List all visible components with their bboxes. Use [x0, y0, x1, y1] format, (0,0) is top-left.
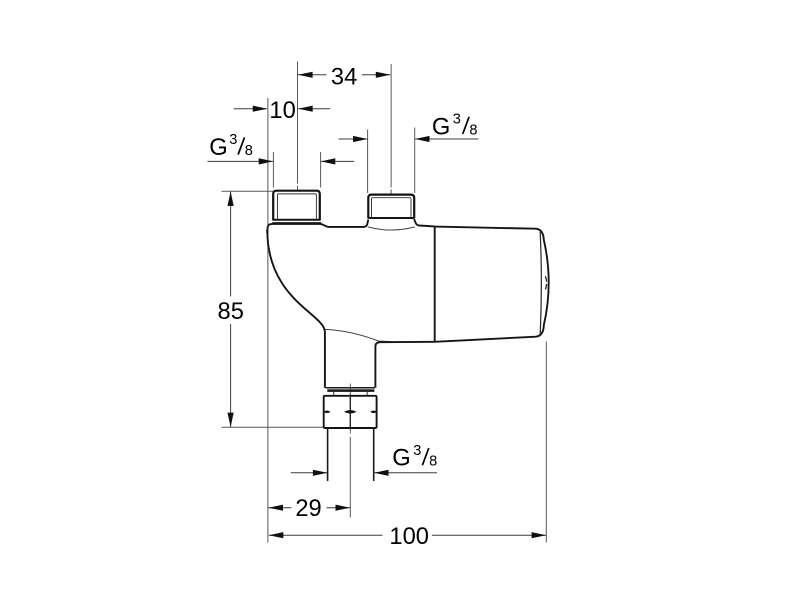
bottom stub pipe right edge	[373, 429, 375, 481]
extension line: right thread right edge	[414, 128, 416, 194]
arrow 34 right	[376, 72, 391, 78]
dim line 34	[298, 74, 327, 76]
dim line 85	[230, 192, 232, 297]
right thread connector outline	[368, 195, 414, 219]
arrow 29 right	[336, 505, 351, 511]
washer bar	[327, 389, 374, 392]
label G3/8 bottom	[392, 443, 437, 472]
cartridge housing outline	[435, 227, 549, 342]
arrow 85 bottom	[228, 413, 234, 428]
extension line: left thread left edge	[272, 152, 274, 188]
arrow 10 left	[253, 106, 268, 112]
cap seam line	[540, 232, 541, 335]
left thread connector outline	[273, 191, 320, 221]
right thread inner chamfer lines	[372, 198, 412, 217]
svg-text:85: 85	[218, 299, 244, 325]
leader G3/8 top right	[415, 138, 478, 140]
extension line: 85 bottom	[222, 426, 324, 428]
svg-text:G: G	[392, 446, 410, 472]
centerline: right thread	[390, 64, 392, 188]
svg-text:100: 100	[389, 524, 429, 550]
left thread inner chamfer lines	[278, 194, 317, 219]
label G3/8 top right	[432, 112, 478, 141]
left thread base collar line	[272, 222, 321, 224]
washer side edges	[334, 392, 368, 396]
svg-text:10: 10	[269, 98, 295, 124]
svg-text:G: G	[209, 135, 227, 161]
svg-text:G: G	[432, 114, 450, 140]
body left big arc into outlet pipe left edge	[267, 230, 325, 388]
right thread bottom edge	[368, 217, 414, 219]
hex nut chamfer lens left	[324, 411, 331, 414]
arrow G3/8 TL partner	[321, 158, 336, 164]
extension line: right thread left edge	[367, 130, 369, 194]
dim line 10 tails	[234, 108, 267, 110]
centerline: left thread	[297, 62, 299, 184]
cap centre tick marks	[545, 276, 546, 289]
arrow G3/8 TL leader	[259, 158, 274, 164]
svg-text:29: 29	[295, 496, 321, 522]
extension line: cylinder right end	[545, 342, 547, 543]
divider line body / cartridge housing	[434, 227, 436, 342]
left thread bottom edge	[273, 219, 320, 221]
svg-text:8: 8	[429, 454, 437, 470]
arrow 29 left	[269, 505, 284, 511]
extension line: left thread right edge	[320, 152, 322, 188]
hex nut chamfer lens right	[370, 411, 377, 414]
svg-text:3: 3	[413, 443, 421, 459]
arrow 100 right	[532, 532, 547, 538]
leader G3/8 top left	[207, 160, 272, 162]
arrow G3/8 bottom leader	[374, 470, 389, 476]
arrow G3/8 bottom partner	[313, 470, 328, 476]
arrow G3/8 TR leader	[415, 136, 430, 142]
svg-text:8: 8	[469, 122, 477, 138]
svg-text:3: 3	[453, 112, 461, 128]
svg-text:34: 34	[331, 64, 357, 90]
saddle curve under right thread	[368, 227, 415, 230]
dim line 29	[268, 507, 291, 509]
extension line: body left edge (long)	[267, 98, 269, 543]
body top edge right of right thread	[414, 219, 435, 226]
saddle curve right of outlet pipe	[325, 329, 392, 341]
arrow 34 left	[298, 72, 313, 78]
centerline: bottom outlet	[349, 384, 351, 434]
bottom stub pipe left edge	[327, 429, 329, 481]
leader G3/8 bottom	[374, 472, 437, 474]
arrow 10 right	[298, 106, 313, 112]
dim line 100	[269, 534, 383, 536]
arrow 100 left	[269, 532, 284, 538]
hex nut facet line	[349, 396, 351, 428]
body top edge with left corner and S to saddle level	[267, 220, 368, 234]
label G3/8 top left	[209, 132, 253, 161]
svg-text:8: 8	[245, 143, 253, 159]
hex nut outline	[324, 396, 377, 428]
svg-text:3: 3	[229, 132, 237, 148]
extension line: 85 top	[222, 190, 274, 192]
outlet pipe right edge and body bottom edge	[375, 342, 434, 388]
arrow G3/8 TR partner	[353, 136, 368, 142]
hex nut chamfer lens centre	[344, 410, 357, 414]
arrow 85 top	[228, 192, 234, 207]
outlet pipe bottom edge	[325, 387, 375, 389]
